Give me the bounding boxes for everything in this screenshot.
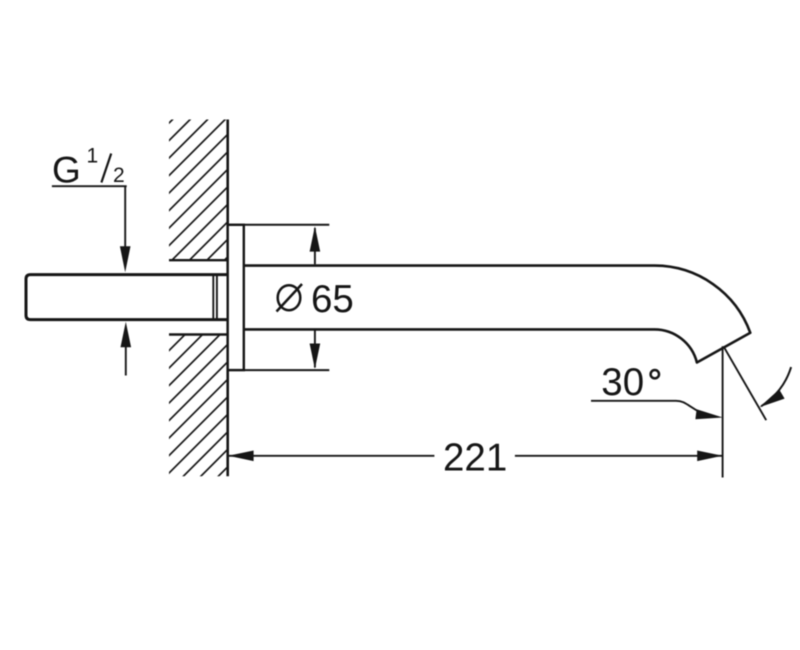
svg-text:G: G [52, 149, 81, 190]
svg-text:65: 65 [311, 278, 354, 321]
svg-text:1: 1 [87, 145, 99, 168]
svg-text:221: 221 [443, 436, 507, 479]
svg-text:2: 2 [113, 164, 125, 187]
svg-text:30: 30 [601, 361, 644, 404]
